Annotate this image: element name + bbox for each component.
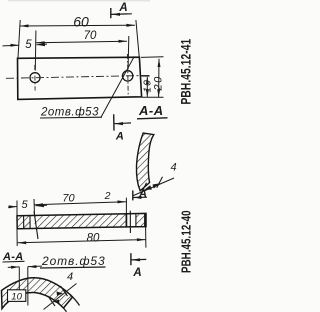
- svg-text:5: 5: [25, 39, 32, 51]
- right side extension bottom: [142, 96, 164, 98]
- extension line x128: [127, 36, 130, 70]
- horizontal centerline: [6, 75, 150, 78]
- bar right edge thick: [144, 213, 146, 226]
- extension x146 for 80: [145, 227, 147, 248]
- extension x17 for 80: [16, 229, 18, 246]
- extension x126 bottom: [125, 198, 127, 215]
- outer arc extension line: [70, 295, 80, 306]
- dimension 5 outside arrow left: [3, 44, 20, 47]
- dimension 5 bottom right arrow: [36, 204, 48, 207]
- bar hatch right cell: [136, 214, 145, 227]
- inner arc extension line: [64, 308, 67, 312]
- arrowheads for 4: [144, 185, 152, 190]
- extension line left x20: [18, 20, 20, 58]
- extension x34 bottom: [33, 199, 36, 216]
- arc band section body: [2, 278, 73, 309]
- hole edge line overshooting: [34, 211, 38, 239]
- svg-text:4: 4: [67, 271, 73, 283]
- paper background: [0, 0, 210, 312]
- svg-text:РВН.45.12-40: РВН.45.12-40: [180, 210, 194, 273]
- tick 2: [157, 177, 163, 188]
- bar divider x136: [135, 214, 137, 227]
- svg-text:10: 10: [11, 291, 22, 302]
- dimension 4 line (crescent): [134, 178, 175, 196]
- dimension 10 right arrow: [28, 265, 42, 268]
- dimension 80 line: [18, 240, 146, 243]
- section marker A below bar: [131, 253, 146, 279]
- svg-text:5: 5: [21, 199, 28, 211]
- plate outline: [18, 57, 142, 99]
- bar outline: [17, 213, 146, 228]
- extension line x28: [27, 267, 29, 306]
- svg-text:А: А: [138, 188, 147, 200]
- dimension 60 line: [20, 24, 135, 27]
- tick 1 arc: [48, 296, 55, 306]
- dimension 4 line (arc): [44, 284, 77, 310]
- svg-text:А-А: А-А: [138, 103, 164, 118]
- hole left: [30, 73, 40, 83]
- hole right: [123, 71, 133, 81]
- dimension 5 outside arrow right: [37, 43, 48, 46]
- dimension 70 bottom line: [35, 202, 127, 205]
- svg-text:4: 4: [170, 162, 176, 174]
- underline of label: [40, 116, 102, 119]
- bar divider x126 thick: [125, 214, 127, 227]
- dimension 20 line vertical: [158, 59, 160, 98]
- crescent section body: [136, 133, 153, 191]
- arrowheads for 4 arc: [53, 300, 60, 305]
- dimension 70 line: [36, 41, 127, 43]
- vertical centerline right hole: [127, 54, 130, 96]
- svg-text:70: 70: [84, 30, 97, 42]
- underline A-A: [137, 118, 168, 119]
- svg-text:2отв.ф53: 2отв.ф53: [40, 107, 99, 119]
- section marker A middle: [114, 114, 131, 142]
- dimension 10 line vertical: [146, 77, 148, 97]
- svg-text:А: А: [115, 131, 124, 143]
- svg-text:70: 70: [62, 193, 75, 205]
- extension line right x136: [136, 20, 139, 57]
- bar divider x30 (hole edge): [29, 216, 31, 229]
- svg-text:РВН.45.12-41: РВН.45.12-41: [178, 39, 194, 105]
- vertical centerline left hole: [34, 65, 36, 91]
- leader to holes: [101, 56, 134, 117]
- section cut line through right hole: [129, 211, 131, 233]
- svg-text:2: 2: [104, 190, 111, 202]
- tick 1: [141, 183, 147, 194]
- underline A-A bottom: [3, 260, 25, 263]
- svg-text:А: А: [132, 267, 141, 279]
- bar divider x23.6: [23, 216, 25, 229]
- section marker A top: [111, 2, 132, 18]
- right side extension top: [141, 56, 164, 59]
- scan smudge top edge: [8, 0, 150, 1]
- extension line x36: [34, 31, 37, 71]
- svg-text:20: 20: [153, 75, 165, 91]
- extension line x19: [18, 267, 20, 290]
- svg-text:80: 80: [87, 233, 100, 245]
- svg-text:А: А: [118, 2, 127, 14]
- bar hatch left cells: [18, 216, 31, 229]
- underline 2otv bottom: [40, 267, 106, 268]
- svg-text:60: 60: [73, 14, 89, 30]
- tick 2 arc: [61, 286, 68, 296]
- extension x17 bottom: [16, 201, 18, 216]
- bar hatch main cell: [35, 214, 127, 229]
- svg-text:2отв.ф53: 2отв.ф53: [41, 254, 106, 268]
- dimension 10 left arrow: [8, 266, 19, 269]
- 10 box: [8, 290, 26, 302]
- centerline stub right: [142, 75, 150, 77]
- section marker A above bar: [133, 188, 147, 201]
- dimension 5 bottom left arrow: [8, 206, 17, 209]
